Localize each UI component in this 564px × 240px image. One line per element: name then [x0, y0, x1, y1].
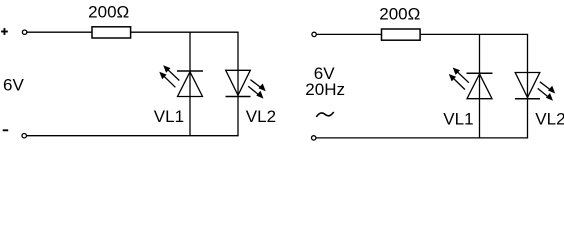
led VL2 light arrow 1 AC circuit: [540, 82, 555, 94]
led VL2 triangle (pointing down): [226, 70, 251, 95]
led VL2 anode/cathode bar: [226, 96, 251, 98]
minus terminal label -: [3, 129, 9, 131]
svg-text:VL2: VL2: [246, 107, 276, 126]
wire top from AC terminal to resistor: [317, 33, 382, 35]
led VL1 triangle (pointing up): [178, 72, 203, 97]
led VL1 light arrow 1 AC circuit: [453, 68, 469, 83]
led VL1 cathode bar AC circuit: [467, 72, 493, 74]
led VL1 light arrow 2 AC circuit: [449, 74, 465, 90]
terminal node top-left (open circle): [22, 30, 26, 34]
wire top from + terminal to resistor: [27, 31, 92, 33]
resistor R 200ohm (box): [92, 27, 131, 38]
led VL2 light arrow 2 AC circuit: [538, 88, 553, 100]
svg-text:VL1: VL1: [154, 107, 184, 126]
led VL2 triangle AC circuit (pointing down): [515, 73, 540, 98]
wire top from resistor to VL2 branch corner: [131, 31, 239, 33]
svg-text:200Ω: 200Ω: [88, 3, 129, 22]
svg-text:VL2: VL2: [535, 109, 564, 128]
wire top from resistor to VL2 branch corner AC circuit: [420, 33, 528, 35]
resistor R 200ohm AC circuit (box): [382, 29, 421, 40]
terminal node bottom-left AC (open circle): [312, 136, 316, 140]
svg-text:200Ω: 200Ω: [379, 4, 420, 23]
wire bottom from - terminal to VL2 branch: [27, 135, 239, 137]
led VL2 anode/cathode bar AC circuit: [515, 98, 540, 100]
svg-text:20Hz: 20Hz: [305, 80, 345, 99]
wire VL1 branch vertical: [189, 32, 191, 136]
wire VL2 branch vertical AC circuit: [527, 34, 529, 137]
AC source tilde symbol: [316, 112, 333, 117]
svg-text:VL1: VL1: [443, 109, 473, 128]
led VL1 light arrow 1: [163, 65, 179, 80]
led VL1 triangle AC circuit (pointing up): [467, 74, 492, 99]
led VL1 cathode bar: [177, 70, 203, 72]
terminal node bottom-left (open circle): [22, 134, 26, 138]
led VL1 light arrow 2: [159, 72, 175, 88]
led VL2 light arrow 1: [250, 80, 265, 92]
wire VL1 branch vertical AC circuit: [479, 34, 481, 137]
plus terminal label +: [1, 28, 8, 35]
wire VL2 branch vertical: [237, 32, 239, 136]
terminal node top-left AC (open circle): [312, 32, 316, 36]
led VL2 light arrow 2: [248, 86, 263, 98]
wire bottom from AC terminal to VL2 branch: [316, 137, 528, 139]
svg-text:6V: 6V: [3, 75, 24, 94]
